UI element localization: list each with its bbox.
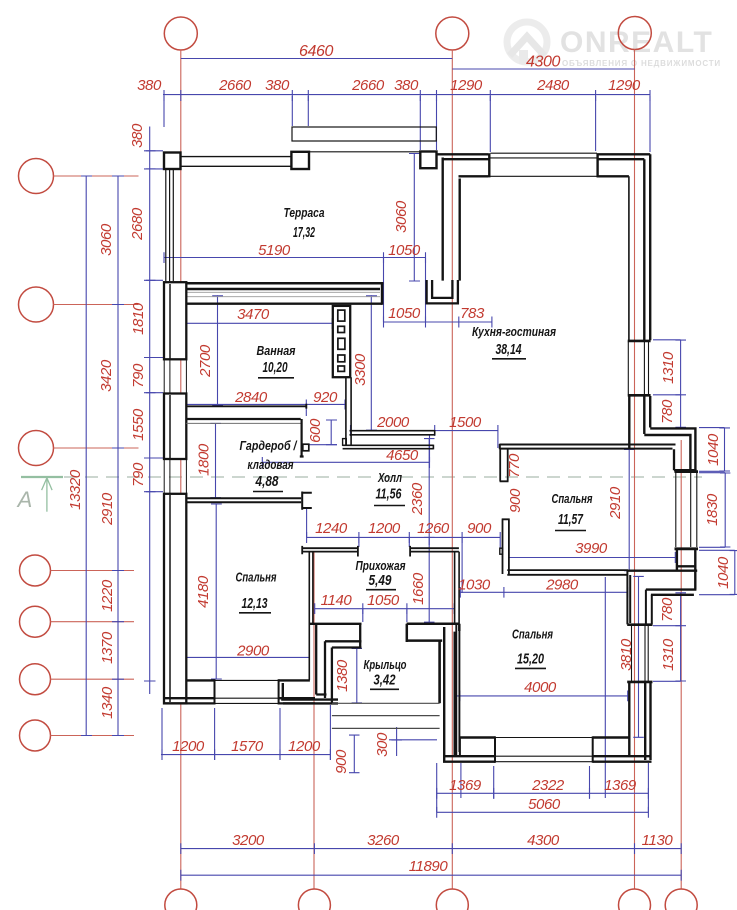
axis line vertical 2	[451, 50, 453, 889]
svg-text:1369: 1369	[449, 777, 482, 794]
svg-text:1380: 1380	[334, 659, 351, 692]
svg-text:1570: 1570	[231, 738, 264, 755]
porch west wall L	[316, 624, 332, 704]
axis circle left 5	[20, 606, 51, 637]
dim line 600 niche	[330, 420, 332, 445]
svg-text:4650: 4650	[386, 447, 419, 464]
porch north bar right	[407, 624, 460, 642]
terrace rail left	[166, 169, 174, 281]
svg-text:1370: 1370	[99, 631, 116, 664]
svg-text:3060: 3060	[98, 223, 115, 256]
svg-text:4300: 4300	[527, 832, 560, 849]
svg-text:1830: 1830	[704, 493, 721, 526]
dim line 3470 bathroom	[184, 322, 332, 324]
svg-text:3420: 3420	[98, 359, 115, 392]
svg-text:1040: 1040	[705, 433, 722, 466]
svg-text:4180: 4180	[195, 575, 212, 608]
svg-text:1310: 1310	[660, 638, 677, 671]
section trace A-A dashed	[64, 476, 702, 478]
axis line horiz 6	[51, 678, 135, 680]
svg-text:Ванная: Ванная	[257, 343, 296, 358]
kitchen top wall east block	[597, 153, 650, 177]
axis circle bottom 3	[436, 889, 468, 910]
svg-text:1550: 1550	[130, 408, 147, 441]
axis circle left 7	[20, 720, 51, 751]
dim line 780 1310 lower right	[680, 593, 682, 682]
dim line 2840 920	[186, 403, 345, 405]
hall north wall A	[350, 430, 435, 436]
svg-text:1260: 1260	[417, 520, 450, 537]
dim line 3810 bedroom15	[638, 576, 640, 738]
east wall lower pier	[629, 396, 650, 449]
house southwest corner step	[281, 683, 338, 703]
axis line horiz 1	[54, 175, 139, 177]
east wall window top cap	[628, 340, 651, 343]
svg-text:2680: 2680	[129, 207, 146, 241]
svg-text:11,56: 11,56	[376, 487, 403, 503]
axis line horiz 3	[54, 447, 139, 449]
svg-text:4,88: 4,88	[255, 474, 280, 490]
top wall faint core lines	[172, 292, 380, 296]
wardrobe east stub	[300, 419, 304, 457]
bedroom12 south wall caps	[215, 679, 279, 704]
svg-text:1050: 1050	[388, 242, 421, 259]
dim extension drops top row2	[164, 96, 650, 152]
east wall upper pier	[644, 154, 650, 340]
svg-text:380: 380	[394, 77, 419, 94]
svg-text:11890: 11890	[409, 858, 449, 875]
dim ticks left inner	[144, 151, 156, 681]
svg-text:920: 920	[313, 389, 338, 406]
bedroom15 south wall outer lines	[443, 755, 652, 757]
svg-text:Холл: Холл	[377, 470, 402, 485]
svg-text:Прихожая: Прихожая	[356, 558, 406, 573]
axis circle left 3	[19, 431, 54, 466]
svg-text:1340: 1340	[99, 686, 116, 719]
svg-text:1369: 1369	[604, 777, 637, 794]
svg-text:783: 783	[460, 305, 485, 322]
dim line left total 13320	[85, 176, 87, 736]
dim extension drops bottom right	[437, 577, 649, 812]
WATERMARK	[507, 22, 721, 68]
top wall outer double	[164, 283, 384, 289]
prihozhaya west wall	[309, 552, 313, 680]
terrace post 2	[291, 152, 309, 169]
bedroom15 west wall	[444, 627, 455, 762]
svg-text:2660: 2660	[351, 77, 385, 94]
svg-text:кладовая: кладовая	[248, 457, 294, 472]
dim line 900 porch	[353, 735, 355, 773]
svg-text:3060: 3060	[393, 200, 410, 233]
svg-text:780: 780	[659, 597, 676, 622]
svg-text:ОБЪЯВЛЕНИЯ О НЕДВИЖИМОСТИ: ОБЪЯВЛЕНИЯ О НЕДВИЖИМОСТИ	[562, 59, 721, 68]
dim line left column segments	[117, 176, 119, 736]
dim extension drops bottom left	[162, 705, 330, 760]
bedroom11 north wall	[499, 444, 675, 449]
bedroom12 south wall inner	[186, 679, 214, 681]
svg-text:5,49: 5,49	[369, 573, 392, 589]
bedroom15 south wall caps	[460, 736, 593, 762]
bay window jamb	[674, 449, 697, 470]
dim line 4300 top	[452, 68, 635, 70]
svg-text:Крыльцо: Крыльцо	[364, 657, 407, 672]
svg-text:900: 900	[467, 520, 492, 537]
svg-text:Спальня: Спальня	[512, 627, 553, 642]
svg-text:2900: 2900	[236, 643, 270, 660]
svg-text:770: 770	[506, 453, 523, 478]
wing east wall lower pier	[629, 683, 650, 761]
bedroom11 west lower wall	[502, 519, 510, 574]
prihozhaya north bar left	[302, 546, 359, 557]
svg-text:Спальня: Спальня	[236, 570, 277, 585]
dim line 3200 3260 4300 1130	[181, 848, 681, 850]
bay window top cap	[675, 470, 699, 473]
svg-text:3990: 3990	[575, 540, 608, 557]
axis line horiz 4	[51, 570, 135, 572]
dim line 1200 1570 1200 bottom left	[161, 754, 330, 756]
dim line 2900 bedroom12	[186, 656, 309, 658]
axis line horiz 2	[54, 304, 139, 306]
svg-text:1140: 1140	[321, 592, 353, 609]
svg-text:1310: 1310	[660, 351, 677, 384]
svg-text:1050: 1050	[388, 305, 421, 322]
wardrobe north wall	[186, 418, 300, 420]
bay window bottom cap	[675, 547, 699, 550]
bedroom12 door jamb	[302, 492, 312, 510]
dim line top row2	[163, 94, 651, 96]
wing east window	[632, 626, 649, 681]
axis circle bottom 2	[298, 889, 330, 910]
svg-text:2910: 2910	[99, 492, 116, 526]
axis circle top 2	[436, 17, 469, 50]
svg-text:38,14: 38,14	[496, 342, 522, 358]
bay south walls	[677, 550, 695, 590]
axis circle left 2	[19, 287, 54, 322]
axis circle left 6	[20, 664, 51, 695]
west wall pier 3 long	[164, 494, 186, 704]
bathroom east wall	[346, 377, 351, 445]
svg-text:3,42: 3,42	[374, 673, 396, 689]
top wall east cap	[381, 282, 384, 305]
svg-text:2660: 2660	[218, 77, 252, 94]
svg-text:A: A	[16, 487, 33, 512]
west wall window 1	[164, 359, 186, 393]
west wall pier 2	[164, 394, 186, 460]
dim line 1240 1200 1260 900	[307, 536, 501, 538]
axis line vertical 1	[180, 50, 182, 889]
east wall window bottom cap	[628, 394, 651, 397]
logo house icon	[507, 22, 547, 64]
porch north bar left	[309, 624, 361, 648]
svg-text:1290: 1290	[450, 77, 483, 94]
svg-text:Терраса: Терраса	[284, 205, 325, 220]
svg-text:2980: 2980	[545, 577, 579, 594]
terrace pergola lower line	[308, 151, 420, 153]
dim line 1369 2322 1369	[437, 792, 649, 794]
SECTION LINE	[16, 477, 702, 512]
WALLS	[164, 127, 698, 763]
bedroom12 south wall outer lines	[164, 697, 315, 699]
porch steps	[332, 703, 440, 728]
dim line 2000 1500 kitchen bottom	[351, 430, 498, 432]
kitchen west wall lines	[443, 158, 460, 281]
wardrobe south wall / bedroom12 north	[186, 498, 301, 502]
svg-text:Гардероб /: Гардероб /	[240, 438, 298, 453]
ROOM LABELS	[236, 205, 593, 689]
svg-text:13320: 13320	[67, 469, 84, 510]
dim line 1800 wardrobe	[215, 423, 217, 498]
svg-text:1200: 1200	[288, 738, 321, 755]
dim extension drops prihozhaya	[307, 508, 463, 593]
svg-text:900: 900	[333, 749, 350, 774]
dim line 4000 bedroom15	[455, 695, 628, 697]
prihozhaya north bar right	[410, 546, 459, 557]
svg-text:1030: 1030	[458, 577, 491, 594]
east wall window	[628, 342, 648, 395]
dim line 300 porch step	[396, 727, 398, 756]
dim line 11890	[181, 874, 681, 876]
svg-text:1810: 1810	[130, 302, 147, 335]
dim line 1050 783 kitchen	[384, 321, 492, 323]
dim line 1310 780 upper right	[680, 340, 682, 428]
dim line 3060 right of terrace	[413, 153, 415, 281]
svg-text:1220: 1220	[99, 579, 116, 612]
svg-text:10,20: 10,20	[263, 360, 288, 376]
axis line vertical short A2	[313, 552, 315, 889]
dim stub porch step	[389, 739, 437, 741]
dim line 5190 1050 terrace	[164, 257, 426, 259]
svg-text:1130: 1130	[642, 832, 674, 849]
svg-text:3300: 3300	[352, 353, 369, 386]
axis circle top 3	[618, 17, 651, 50]
prihozhaya east wall	[455, 552, 460, 625]
wing northeast step	[646, 590, 697, 595]
dim connector 4650 right	[429, 436, 431, 463]
dim line 1380 porch height	[356, 648, 358, 703]
terrace rail top	[181, 157, 292, 167]
bedroom11 southeast ledge	[628, 570, 697, 572]
bedroom11 south wall	[507, 570, 628, 575]
axis circle left 4	[20, 555, 51, 586]
svg-text:5060: 5060	[528, 796, 561, 813]
west wall pier 1	[164, 282, 186, 359]
svg-text:790: 790	[130, 462, 147, 487]
vent shaft	[333, 306, 350, 377]
svg-text:6460: 6460	[299, 43, 333, 60]
svg-text:11,57: 11,57	[558, 512, 584, 528]
svg-text:780: 780	[659, 399, 676, 424]
axis line horiz 5	[51, 621, 135, 623]
svg-text:1800: 1800	[196, 443, 213, 476]
svg-text:15,20: 15,20	[517, 652, 544, 668]
svg-text:1040: 1040	[715, 556, 732, 589]
dim line 5060	[437, 811, 649, 813]
dim line 1040 upper right	[724, 428, 726, 472]
svg-text:3200: 3200	[232, 832, 265, 849]
svg-text:380: 380	[265, 77, 290, 94]
kitchen top window	[491, 153, 598, 176]
dim line 3300 hall	[370, 295, 372, 430]
axis circle bottom 5	[665, 889, 697, 910]
dim line 4650 hall	[262, 461, 429, 463]
svg-text:2322: 2322	[531, 777, 565, 794]
svg-text:790: 790	[130, 363, 147, 388]
wing east wall upper	[627, 571, 651, 624]
dim line 1040 lower right	[734, 550, 736, 594]
svg-text:4000: 4000	[524, 679, 557, 696]
svg-text:12,13: 12,13	[242, 596, 268, 612]
bedroom11 west stub	[500, 449, 509, 481]
svg-text:3470: 3470	[237, 306, 270, 323]
dim line 2700 bathroom	[217, 295, 219, 406]
dim extension stubs left inner	[146, 151, 163, 492]
svg-text:Спальня: Спальня	[552, 491, 593, 506]
axis line vertical 3	[634, 50, 636, 890]
section arrow	[46, 478, 48, 511]
dim line 2360 1660	[428, 438, 430, 622]
axis circle bottom 1	[165, 889, 197, 910]
west wall window 2	[164, 459, 186, 494]
svg-text:600: 600	[307, 418, 324, 443]
wing east window bottom cap	[627, 681, 652, 684]
top wall inner face	[186, 303, 382, 305]
svg-text:2910: 2910	[607, 486, 624, 520]
svg-text:3260: 3260	[367, 832, 400, 849]
svg-text:2840: 2840	[234, 389, 268, 406]
axis circle left 1	[19, 159, 54, 194]
dim line 3990	[509, 557, 676, 559]
dim ticks top row2	[164, 90, 650, 101]
svg-text:1500: 1500	[449, 414, 482, 431]
svg-text:2700: 2700	[197, 344, 214, 378]
svg-text:1200: 1200	[368, 520, 401, 537]
porch inner east wall	[438, 641, 441, 704]
svg-text:5190: 5190	[258, 242, 291, 259]
dim line 1140 1050 porch door	[315, 608, 455, 610]
svg-text:1050: 1050	[367, 592, 400, 609]
svg-text:Кухня-гостиная: Кухня-гостиная	[472, 324, 556, 339]
svg-text:3810: 3810	[618, 638, 635, 671]
svg-text:2480: 2480	[536, 77, 570, 94]
svg-text:2000: 2000	[376, 414, 410, 431]
dim line 1830 right	[724, 473, 726, 548]
kitchen west U block outer	[427, 280, 458, 303]
section marker line	[21, 476, 63, 478]
svg-text:4300: 4300	[526, 54, 560, 71]
svg-text:1200: 1200	[172, 738, 205, 755]
bay window east	[676, 473, 697, 547]
bathroom south wall	[186, 404, 306, 409]
wing east window top cap	[627, 623, 652, 626]
svg-text:380: 380	[137, 77, 162, 94]
dim line 2910 bedroom11	[628, 449, 630, 571]
dim ticks left column	[112, 176, 124, 736]
svg-text:17,32: 17,32	[293, 225, 315, 241]
bedroom11 west door tab	[500, 548, 503, 554]
svg-text:2360: 2360	[409, 482, 426, 516]
terrace post 3	[420, 152, 436, 169]
svg-text:300: 300	[374, 732, 391, 757]
kitchen west U block inner	[432, 280, 452, 298]
dim line left inner	[149, 127, 151, 695]
terrace post 1	[164, 153, 181, 170]
svg-text:1240: 1240	[315, 520, 348, 537]
wall B left tab	[343, 439, 347, 446]
svg-text:380: 380	[129, 123, 146, 148]
svg-text:ONREALT: ONREALT	[560, 26, 713, 59]
axis line vertical short A5	[680, 440, 682, 889]
axis circle top 1	[164, 17, 197, 50]
kitchen top wall west block	[437, 153, 490, 177]
terrace pergola rect	[292, 127, 436, 141]
svg-text:1660: 1660	[410, 572, 427, 605]
axis line horiz 7	[51, 735, 135, 737]
svg-text:900: 900	[507, 488, 524, 513]
bedroom15 south wall inner	[460, 736, 496, 738]
porch east wall	[456, 625, 459, 756]
dim line 4180 bedroom12	[215, 504, 217, 680]
svg-text:1290: 1290	[608, 77, 641, 94]
bay top outer	[644, 428, 695, 470]
dim extension drops porch door	[363, 609, 407, 622]
dim line 6460 top	[181, 58, 453, 60]
dim line 1030 2980	[460, 591, 627, 593]
hall north wall B	[343, 445, 434, 450]
axis circle bottom 4	[619, 889, 651, 910]
